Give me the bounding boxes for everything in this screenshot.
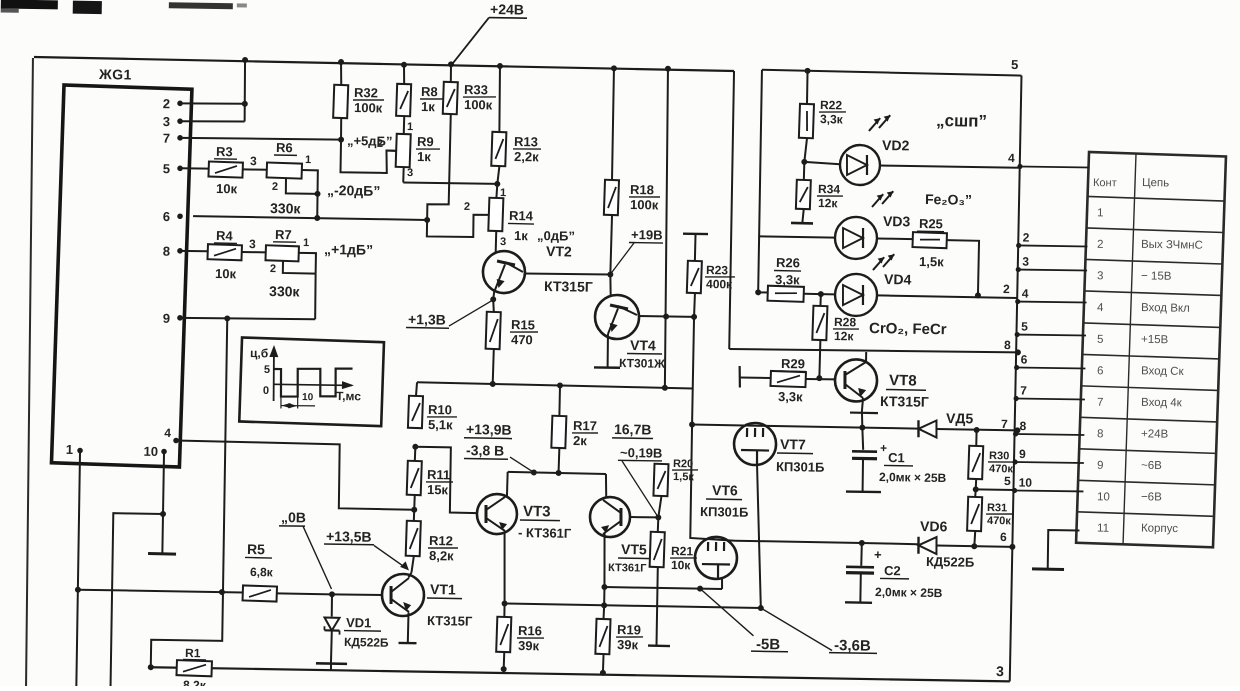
wire R34 top lead <box>803 162 806 180</box>
resistor R26 <box>767 286 803 302</box>
resistor R34 label <box>817 182 843 210</box>
R9 pin2 label <box>377 138 383 150</box>
resistor R5 <box>243 585 277 601</box>
resistor R18 label <box>629 182 660 213</box>
IC U1 pin 1 <box>66 442 83 457</box>
wire R7 pin2 wiper <box>283 260 316 273</box>
wire R32 node loop to R9 wiper <box>340 140 397 174</box>
enclosure pin 7 label <box>1001 417 1008 431</box>
wire C1 top lead <box>862 428 864 450</box>
resistor R3 label <box>213 144 238 196</box>
svg-text:R3: R3 <box>216 144 233 159</box>
net label +13,5В <box>324 528 374 545</box>
wire pin6 to R14 wiper <box>427 214 489 238</box>
IC U1 pin 4 <box>164 426 179 443</box>
wire R15 top lead <box>493 299 494 312</box>
junction R26/R28 <box>818 291 824 297</box>
led VD3 <box>835 217 878 260</box>
wire R32 top lead <box>340 62 343 85</box>
wire VT5e to R19 node <box>603 587 605 605</box>
wire VD4 left <box>821 293 835 295</box>
wire bus to table row 8 <box>1013 419 1085 438</box>
svg-text:330к: 330к <box>269 283 301 300</box>
R7 pin1 label <box>303 237 309 249</box>
R21 bottom bar <box>648 644 670 647</box>
VT1 emitter bar <box>399 642 417 645</box>
transistor VT2 type label <box>544 278 593 295</box>
svg-text:Конт: Конт <box>1093 177 1117 189</box>
svg-text:R31: R31 <box>987 502 1007 514</box>
svg-text:3,3к: 3,3к <box>778 389 803 404</box>
wire R17 bottom lead <box>558 448 561 473</box>
node label 3 (R3/R6) <box>250 154 257 168</box>
svg-text:1,5к: 1,5к <box>919 254 944 269</box>
wire long vertical R20 chain top <box>663 69 670 388</box>
svg-text:КД522Б: КД522Б <box>344 635 389 650</box>
resistor R8 label <box>420 84 444 114</box>
junction VD4/R25 <box>975 292 981 298</box>
svg-text:330к: 330к <box>270 200 302 217</box>
svg-text:5: 5 <box>1004 474 1011 488</box>
R8 pin1 label <box>407 121 413 133</box>
wire VD6 row right <box>936 546 1012 547</box>
wire R19 top lead <box>603 605 606 619</box>
resistor R19 label <box>616 622 643 652</box>
leader +1,3В <box>449 300 492 327</box>
diode VD5 label <box>946 410 974 426</box>
resistor R9 label <box>416 134 440 164</box>
transistor VT4 label <box>619 337 666 371</box>
wire VT3 emitter <box>503 532 505 603</box>
svg-text:R1: R1 <box>185 646 201 660</box>
resistor R17 <box>551 416 566 448</box>
svg-text:2,0мк × 25В: 2,0мк × 25В <box>875 585 943 600</box>
enclosure corner label 5 <box>1011 57 1018 72</box>
resistor R6 label <box>274 140 297 155</box>
junction VT8e/wire425 <box>859 425 865 431</box>
resistor R28 label <box>833 315 859 343</box>
svg-text:VT7: VT7 <box>780 436 806 452</box>
wire C1 bottom lead <box>861 459 864 492</box>
capacitor C1 <box>852 451 877 458</box>
svg-text:10: 10 <box>1019 475 1033 489</box>
ground symbol under IC <box>148 552 176 556</box>
wire R10 top lead <box>416 382 417 396</box>
svg-text:5,1к: 5,1к <box>428 417 453 432</box>
R9 pin3 label <box>407 167 413 179</box>
led VD3 light arrows <box>872 191 893 208</box>
svg-text:Т,мс: Т,мс <box>336 389 361 403</box>
IC U1 pin 5 <box>163 161 183 176</box>
wire VT4 base lead <box>610 274 611 296</box>
junction R28/base <box>816 375 822 381</box>
svg-text:+15В: +15В <box>1141 334 1169 346</box>
waveform inset frame <box>239 337 384 426</box>
resistor R1 <box>176 660 211 676</box>
wire R4-R7 node 3 <box>242 251 266 253</box>
resistor R31 <box>967 497 982 531</box>
svg-text:8: 8 <box>1004 338 1011 352</box>
svg-text:6,8к: 6,8к <box>250 565 274 579</box>
resistor R7 label <box>273 227 296 242</box>
svg-text:R21: R21 <box>671 544 694 558</box>
wire pin9 long vertical <box>151 317 228 668</box>
wire VT2 base lead <box>495 231 498 252</box>
svg-text:VD2: VD2 <box>882 137 910 153</box>
wire top supply rail <box>34 57 734 71</box>
svg-text:3: 3 <box>500 236 506 248</box>
junction rail/R19 <box>600 670 606 676</box>
svg-text:1к: 1к <box>421 99 435 114</box>
svg-text:VD1: VD1 <box>346 615 372 630</box>
transistor VT1 <box>382 574 425 617</box>
svg-text:100к: 100к <box>464 97 493 112</box>
net label +24В <box>489 1 527 18</box>
resistor R12 <box>406 521 421 556</box>
wire VT5 emitter <box>604 534 606 588</box>
svg-text:R23: R23 <box>706 263 729 277</box>
resistor R26 label <box>774 255 802 287</box>
node label 3 bottom right <box>996 663 1004 679</box>
net label +13,9В <box>464 421 512 439</box>
diode VD1 label <box>344 615 390 650</box>
wire R6 pin1 corner <box>302 170 318 194</box>
wire R13 bottom lead <box>497 166 499 184</box>
svg-text:+24В: +24В <box>490 1 524 18</box>
svg-text:10: 10 <box>143 444 158 459</box>
wire collector row VT3-VT5 <box>508 472 606 474</box>
svg-text:2: 2 <box>377 138 383 150</box>
wire R16 top lead <box>503 603 505 616</box>
svg-text:С2: С2 <box>884 563 901 578</box>
IC U1 pin 8 <box>163 244 183 259</box>
capacitor C2 label <box>875 563 943 600</box>
junction bus/VD5row <box>1014 427 1020 433</box>
junction -5В node <box>697 586 703 592</box>
svg-text:5: 5 <box>1011 57 1018 72</box>
svg-text:~0,19В: ~0,19В <box>620 445 663 461</box>
svg-text:11: 11 <box>1097 522 1109 534</box>
led VD4 <box>835 274 878 317</box>
junction 13.9 leader <box>531 469 537 475</box>
junction R32 bottom node <box>338 137 344 143</box>
waveform label 10 <box>302 392 314 403</box>
net label -3,8 В <box>464 442 508 459</box>
resistor R13 label <box>513 134 541 164</box>
led VD2 light arrows <box>869 115 890 131</box>
junction VD1/base <box>329 591 335 597</box>
svg-text:КТ315Г: КТ315Г <box>427 613 473 629</box>
svg-text:8: 8 <box>1019 419 1026 433</box>
svg-text:1: 1 <box>1097 207 1104 219</box>
enclosure right edge bus <box>1010 76 1022 682</box>
wire VT2 collector <box>524 273 611 275</box>
led VD2 label <box>882 137 910 153</box>
transistor VT1 label <box>426 581 473 629</box>
junction rail384/long vertical <box>662 385 668 391</box>
waveform x-axis <box>274 380 355 389</box>
svg-text:„+1дБ”: „+1дБ” <box>324 241 373 258</box>
svg-text:VT6: VT6 <box>712 482 738 498</box>
resistor R11 <box>407 461 422 495</box>
resistor R25 label <box>916 216 945 269</box>
leader -5В <box>699 589 754 636</box>
R29 left bar <box>738 366 741 388</box>
R34 ground bar <box>791 222 813 225</box>
junction R13/R14 node <box>494 181 500 187</box>
svg-text:Fe₂O₃”: Fe₂O₃” <box>925 191 972 208</box>
wire VD5 row right <box>937 429 1018 430</box>
svg-text:R12: R12 <box>429 533 453 548</box>
wire R33 top lead <box>450 64 452 82</box>
resistor R10 <box>408 396 423 428</box>
resistor R32 <box>333 85 348 118</box>
svg-text:R28: R28 <box>834 315 857 329</box>
wire pin6 row <box>193 216 427 220</box>
resistor R10 label <box>427 402 457 432</box>
junction pin10 node <box>160 511 166 517</box>
resistor R28 <box>812 306 827 340</box>
wire VT1 collector <box>408 572 411 577</box>
svg-text:5: 5 <box>163 161 170 176</box>
svg-text:+1,3В: +1,3В <box>408 311 446 328</box>
svg-text:КТ315Г: КТ315Г <box>544 278 593 295</box>
resistor R21 label <box>670 544 697 572</box>
svg-text:VT2: VT2 <box>546 243 572 259</box>
svg-text:39к: 39к <box>518 638 540 653</box>
scan artifact bar top-left <box>1 0 58 13</box>
resistor R19 <box>595 619 610 654</box>
wire VT5 collector lead <box>606 474 607 498</box>
junction VT3e/R16 <box>502 600 508 606</box>
wire bus to table row 7 <box>1013 383 1085 402</box>
svg-text:R29: R29 <box>781 356 805 371</box>
svg-text:7: 7 <box>1001 417 1008 431</box>
junction R31/VD6 row <box>971 543 977 549</box>
svg-text:+19В: +19В <box>631 227 663 243</box>
junction VT5e row <box>601 584 607 590</box>
svg-text:10: 10 <box>1097 491 1110 503</box>
svg-text:1: 1 <box>407 121 413 133</box>
wire VD6 row left <box>735 541 862 543</box>
wire R7 node to pin9 wire <box>315 274 316 320</box>
wire pin8 to R4 <box>178 250 208 253</box>
wire R9.3 to R13 bottom <box>403 182 497 184</box>
svg-text:10к: 10к <box>671 558 692 572</box>
wire bus to table row 3 <box>1016 254 1088 273</box>
svg-text:15к: 15к <box>427 482 449 497</box>
wire VD3 row left <box>758 236 835 237</box>
leader +19В <box>611 243 634 274</box>
resistor R25 <box>912 232 946 248</box>
wire R33 bottom long lead <box>427 114 451 221</box>
diode VD1 cathode bar <box>324 626 339 634</box>
scan artifact dashes top <box>169 2 247 9</box>
wire R23 vertical down <box>690 317 739 541</box>
wire R10/R11 node to VT3 base <box>414 447 478 513</box>
svg-text:3: 3 <box>1097 270 1104 282</box>
svg-text:VD4: VD4 <box>884 271 912 287</box>
svg-text:R5: R5 <box>247 541 265 557</box>
svg-text:VT3: VT3 <box>523 503 551 520</box>
diode VD6 type <box>926 554 974 570</box>
waveform y-axis <box>269 345 279 401</box>
transistor VT5 label <box>608 541 652 575</box>
wire R17 top lead <box>558 385 561 415</box>
led VD4 light arrows <box>873 254 894 271</box>
junction rail/R13 <box>497 63 503 69</box>
svg-text:1: 1 <box>303 237 309 249</box>
connector table header <box>1093 176 1169 190</box>
svg-text:R25: R25 <box>919 216 943 231</box>
transistor VT7 label <box>776 436 825 475</box>
wire VT5 base <box>630 516 659 519</box>
wire R14 top lead <box>495 184 498 198</box>
svg-text:2: 2 <box>1003 282 1010 296</box>
waveform tick 5 <box>264 364 270 376</box>
svg-text:3: 3 <box>250 154 257 168</box>
svg-text:2: 2 <box>270 263 276 275</box>
junction VD6row/C2 <box>859 540 865 546</box>
resistor R30 <box>968 446 983 479</box>
leader 0В <box>302 526 333 589</box>
svg-text:Вход Ск: Вход Ск <box>1141 365 1185 378</box>
wire R19 bottom lead <box>602 654 605 673</box>
wire R11 top lead <box>414 447 417 461</box>
wire VT7 source <box>755 464 764 608</box>
svg-text:Вых ЗЧмнС: Вых ЗЧмнС <box>1141 239 1203 252</box>
junction rail/pin2 <box>242 57 248 63</box>
wire VD1 top lead <box>331 594 333 616</box>
svg-text:R7: R7 <box>275 227 292 242</box>
IC U1 pin 7 <box>163 131 183 146</box>
wire R20 bottom lead <box>658 496 661 518</box>
C2 bottom bar <box>845 601 872 604</box>
wire R29 left lead <box>740 376 771 379</box>
svg-text:1: 1 <box>305 154 311 166</box>
junction bus/bottom-encl <box>1015 349 1021 355</box>
svg-text:VД5: VД5 <box>946 410 974 426</box>
svg-text:6: 6 <box>1021 353 1028 367</box>
svg-text:470к: 470к <box>987 515 1012 527</box>
connector table XS1 frame <box>1076 152 1226 548</box>
wire VT1 emitter <box>407 612 410 642</box>
junction pin6/R33 <box>424 217 430 223</box>
junction rail/R16 <box>501 666 507 672</box>
wire R8-R9 <box>403 116 405 134</box>
svg-text:3: 3 <box>1022 255 1029 269</box>
svg-text:4: 4 <box>164 426 171 440</box>
svg-text:R33: R33 <box>464 82 488 97</box>
waveform dim arrows <box>281 403 297 409</box>
IC U1 pin 9 <box>163 311 183 326</box>
wire bus to table row 10 <box>1012 475 1084 494</box>
wire bus to table row 9 <box>1012 447 1084 466</box>
wire bus to table row 4 <box>1015 286 1087 305</box>
junction pin2 wire <box>242 101 248 107</box>
svg-text:1,5к: 1,5к <box>673 471 694 483</box>
capacitor C2 <box>846 567 874 573</box>
wire left frame border <box>23 58 37 686</box>
wire R31 bottom lead <box>973 531 976 546</box>
transistor VT8 <box>835 359 878 402</box>
enclosure pin 4 label <box>1008 151 1015 165</box>
net label ~0,19В <box>618 445 663 461</box>
wire bus to table row 6 <box>1014 352 1086 371</box>
svg-text:R32: R32 <box>354 85 378 100</box>
wire VD1 bar to rail <box>330 664 332 670</box>
C1 bottom bar <box>846 490 881 493</box>
resistor R33 label <box>463 82 496 113</box>
resistor R16 label <box>517 623 544 653</box>
junction pin1/R5 row <box>75 587 81 593</box>
wire R6 node to pin6 wire <box>316 194 319 218</box>
svg-text:+13,9В: +13,9В <box>466 421 512 438</box>
connector table rows text <box>1092 207 1204 536</box>
svg-text:ц,б: ц,б <box>250 346 268 360</box>
junction -3,6В node <box>758 605 764 611</box>
resistor R33 <box>443 82 458 114</box>
wire R32 bottom lead <box>340 118 343 140</box>
svg-text:2: 2 <box>272 181 278 193</box>
svg-text:R17: R17 <box>573 418 597 433</box>
resistor R3 <box>208 162 242 178</box>
wire pin10 lead <box>163 453 164 514</box>
R14 pin1 label <box>500 187 506 199</box>
svg-text:КТ361Г: КТ361Г <box>608 562 647 575</box>
resistor R23 <box>687 261 702 293</box>
wire R6 pin2 wiper <box>286 177 318 193</box>
wire VT6 source <box>721 577 723 589</box>
svg-text:3: 3 <box>249 237 256 251</box>
junction R10/R11 <box>412 444 418 450</box>
wire VT2 emitter lead <box>493 289 494 299</box>
svg-text:1: 1 <box>66 442 73 457</box>
svg-text:С1: С1 <box>888 450 905 465</box>
svg-text:7: 7 <box>1020 383 1027 397</box>
resistor R23 label <box>705 263 735 291</box>
net label 0В <box>279 509 306 526</box>
wire C2 bottom lead <box>859 573 861 602</box>
wire R13 top lead <box>499 66 501 132</box>
wire R28 bottom lead <box>819 340 820 378</box>
resistor R6 <box>267 162 302 178</box>
svg-text:R22: R22 <box>820 98 843 112</box>
wire VT8 emitter to row <box>861 413 864 428</box>
wire VT8 emitter lead <box>862 398 863 413</box>
svg-text:8: 8 <box>163 244 170 259</box>
svg-text:4: 4 <box>1008 151 1015 165</box>
svg-text:R18: R18 <box>630 182 654 197</box>
svg-text:100к: 100к <box>630 197 659 212</box>
svg-text:9: 9 <box>163 311 170 326</box>
resistor R22 label <box>819 98 846 126</box>
wire R16 bottom lead <box>503 652 506 669</box>
svg-text:3: 3 <box>163 114 170 129</box>
wire bus to table row 5 <box>1015 319 1087 338</box>
wire bus to table row 1 <box>1017 164 1088 170</box>
resistor R29 <box>770 371 805 387</box>
wire R5 row left <box>78 590 243 593</box>
wire R5 to VT1 base <box>277 592 332 595</box>
resistor R8 <box>396 84 411 116</box>
svg-text:5: 5 <box>1021 320 1028 334</box>
wire R9 bottom lead <box>402 167 404 182</box>
svg-text:2: 2 <box>1023 231 1030 245</box>
wire VT5e to VT6 source <box>604 587 722 589</box>
svg-text:4: 4 <box>1022 287 1029 301</box>
VT4 emitter bar <box>594 366 620 369</box>
